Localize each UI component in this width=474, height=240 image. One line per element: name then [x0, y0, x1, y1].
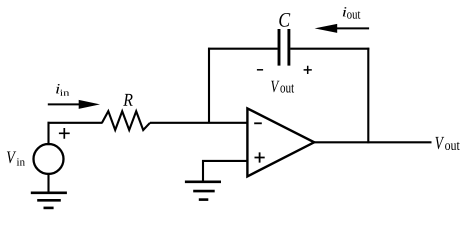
label Vout at output V: [435, 137, 444, 149]
wire resistor to op-amp: [150, 122, 248, 124]
right feedback vertical wire: [367, 48, 369, 144]
label Vin V: [7, 152, 16, 164]
top feedback wire left of capacitor: [208, 48, 278, 50]
wire source bottom vertical: [47, 173, 49, 193]
minus at inverting input: [254, 122, 262, 124]
feedback tap vertical wire: [208, 48, 210, 124]
wire input horizontal to resistor: [48, 122, 103, 124]
ground of op-amp: [185, 181, 221, 184]
polarity + of source: [59, 128, 70, 139]
current arrow iin: [48, 103, 80, 105]
label iin subscript in: [60, 90, 69, 96]
voltage source Vin: [34, 144, 64, 174]
label iout subscript out: [347, 11, 360, 19]
wire non-inverting input to ground: [203, 161, 248, 181]
label iin i: [56, 84, 60, 93]
wire source top vertical: [47, 122, 49, 145]
minus of capacitor: [257, 69, 263, 71]
label Vin subscript in: [17, 158, 25, 165]
label Vout below capacitor subscript out: [280, 84, 294, 92]
ground of source: [31, 192, 67, 195]
capacitor C: [279, 29, 289, 66]
output wire: [313, 141, 432, 143]
plus of capacitor: [304, 66, 312, 74]
op-amp U1: [247, 108, 314, 176]
label C: [279, 13, 290, 27]
top feedback wire right of capacitor: [290, 48, 369, 50]
label Vout at output subscript out: [445, 142, 460, 150]
label R: [123, 94, 133, 106]
plus at non-inverting input: [255, 152, 265, 162]
resistor R: [102, 111, 150, 130]
label iout i: [343, 7, 347, 16]
current arrow iout: [336, 27, 369, 29]
label Vout below capacitor V: [271, 81, 279, 93]
